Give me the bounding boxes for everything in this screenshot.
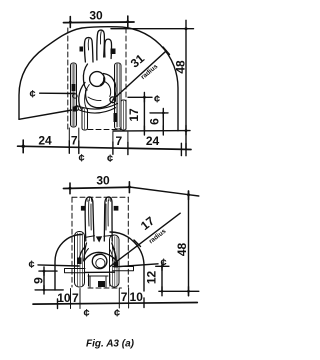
bottom ticks on baseline: 17 line, 6 line, 48 line (143, 126, 145, 135)
dim 30 bottom: line (64, 187, 130, 188)
dim 30 top: dimension line (64, 21, 135, 24)
left reach arc bottom diagram (55, 235, 82, 291)
top person: head shade (101, 78, 104, 85)
right reach arc bottom diagram (110, 232, 144, 291)
bottom person: right forearm line (110, 250, 113, 262)
svg-text:¢: ¢ (114, 308, 120, 320)
svg-text:24: 24 (38, 133, 52, 147)
svg-text:7: 7 (121, 290, 128, 304)
bottom person: face inner circle (96, 259, 105, 268)
top person: head (90, 72, 105, 87)
9 dim: top tick line (39, 270, 57, 272)
svg-text:¢: ¢ (29, 259, 35, 271)
48 bottom: vertical line (188, 191, 190, 296)
top person: right shoulder arm down (104, 74, 117, 100)
dim 30 bottom: left tick (69, 183, 71, 194)
svg-text:7: 7 (71, 134, 78, 148)
dim 30 bottom: right tick (128, 182, 130, 193)
top chair: right big wheel (114, 63, 122, 129)
bottom person: cap line (94, 255, 104, 257)
48 dim top extension line (111, 28, 194, 30)
6 dim top tick line (150, 112, 168, 114)
top person: right blob column (105, 39, 112, 58)
svg-text:¢: ¢ (107, 153, 113, 165)
6 dim tick (162, 109, 164, 118)
48 dim vertical line (185, 20, 187, 149)
svg-text:17: 17 (127, 108, 141, 122)
svg-text:¢: ¢ (154, 94, 160, 106)
bottom chair: frame under seat (88, 276, 108, 287)
svg-text:12: 12 (145, 271, 159, 285)
9 dim: bottom tick line (35, 289, 63, 291)
svg-text:¢: ¢ (30, 89, 36, 101)
17 radius end tick (134, 240, 141, 247)
bottom chair: right armrest bar (113, 267, 134, 271)
bottom person: legs (89, 274, 110, 286)
svg-text:Fig. A3 (a): Fig. A3 (a) (86, 339, 135, 350)
bottom person: right arm to hub (113, 248, 116, 263)
svg-text:6: 6 (148, 118, 162, 125)
9 dim: tick (43, 267, 45, 276)
top person: left arm down to wheel (79, 83, 85, 110)
bottom person: left raised arm (85, 197, 94, 241)
floor slope line left (19, 110, 72, 119)
9 dim: bottom tick (43, 286, 45, 295)
bottom chair: footrest dark (98, 281, 105, 287)
top chair: left caster (82, 108, 88, 130)
baseline right of chair (113, 130, 190, 132)
top person: right hand on wheel (110, 97, 116, 103)
top chair: seat back curves (77, 104, 118, 110)
bottom chair: left wheel (75, 232, 85, 288)
31 radius end tick (163, 47, 170, 55)
dim 30 top: left tick (69, 17, 71, 28)
svg-text:48: 48 (175, 243, 189, 257)
12 dim: top tick line (156, 265, 169, 267)
bottom chair: left handle (81, 206, 86, 211)
axle centerline left: line (40, 92, 75, 94)
top person: left wheel grip circle (73, 94, 77, 98)
svg-text:10: 10 (57, 291, 71, 305)
bottom person: right raised arm (104, 197, 112, 241)
top person: middle raised arm (97, 30, 105, 60)
12 dim: vertical (161, 266, 163, 291)
bottom dimension line (18, 146, 191, 149)
ticks on it (161, 287, 163, 296)
bottom chair: dashed bottom edge (88, 287, 121, 289)
floor dimension line (33, 303, 197, 305)
bottom person: right arm inner line (106, 200, 108, 230)
17 dim tick cross (143, 93, 145, 103)
junction blobs (22, 20, 191, 292)
bottom chair: right handle (114, 206, 119, 211)
bottom person: right shoulder drop (112, 243, 116, 261)
left centerline: line to hub (38, 265, 79, 266)
bottom person: right hand fingers (106, 197, 110, 202)
svg-text:¢: ¢ (84, 308, 90, 320)
bottom dim extension verticals from figure (68, 128, 70, 141)
top person: left arm inner (85, 85, 90, 111)
9 dim: vertical (43, 271, 45, 290)
svg-text:10: 10 (130, 290, 144, 304)
top person: left arm inner line (87, 39, 90, 50)
top chair: left handle black square (80, 47, 84, 52)
bottom-right tick line for 12 and 48 (159, 290, 199, 292)
svg-text:30: 30 (96, 174, 110, 188)
svg-text:¢: ¢ (79, 153, 85, 165)
17 radius line bottom (110, 213, 180, 266)
floor dim extension verticals and ticks (57, 299, 59, 309)
bottom person: head (92, 254, 107, 269)
bottom person: left shoulder drop (84, 243, 87, 261)
svg-text:9: 9 (32, 277, 46, 284)
dashed box left edge (67, 28, 69, 129)
12 dim: tick (161, 262, 163, 270)
bottom chair: left armrest bar (65, 269, 86, 273)
top person: middle arm inner line (99, 32, 102, 44)
bottom person: left hand fingers (87, 197, 91, 202)
top person: body mass left (86, 90, 114, 108)
top chair: right caster (121, 100, 126, 130)
48 bottom: top extension line sloping from 30 tick to corner (129, 187, 198, 196)
bottom dim ticks (22, 140, 24, 153)
bottom person: dark gap between arms (96, 236, 102, 242)
top chair: left big wheel (71, 63, 77, 127)
top person: left hand on wheel (74, 106, 79, 111)
svg-text:7: 7 (72, 291, 79, 305)
bottom chair: right wheel (110, 235, 120, 287)
dashed box right edge (125, 28, 127, 129)
top person: left hub black blob (73, 107, 76, 112)
6 dim vertical line (162, 113, 164, 131)
right centerline: line to hub (120, 264, 158, 267)
48 bottom: tick top (188, 191, 190, 200)
svg-text:48: 48 (174, 60, 188, 74)
top chair: right handle black square (111, 49, 116, 55)
svg-text:24: 24 (146, 134, 160, 148)
bottom person: left forearm line (84, 249, 89, 261)
svg-text:7: 7 (115, 134, 122, 148)
top chair: dashed bottom edge (88, 129, 121, 131)
bottom person: left arm inner line (89, 200, 92, 230)
17 dim vertical line (143, 97, 145, 131)
dome reach envelope outline (19, 27, 178, 131)
bottom person: left arm to hub (79, 247, 85, 260)
dim 30 top: right tick (127, 16, 129, 27)
top person: left raised arm (85, 37, 93, 62)
dashed box bottom diagram (71, 197, 73, 287)
bottom person: sleeve line left (85, 236, 95, 238)
bottom person: sleeve line right (104, 235, 114, 236)
top person: right forearm inner (105, 82, 111, 97)
svg-text:30: 30 (89, 9, 103, 23)
31 radius line (113, 51, 166, 100)
top person: lap curve (88, 97, 101, 101)
bottom person: lap line (85, 271, 115, 273)
top person: neck shoulder left curve (83, 64, 87, 90)
bottom person: shoulders arc over head (84, 252, 116, 261)
17 dim top tick line (128, 96, 152, 98)
